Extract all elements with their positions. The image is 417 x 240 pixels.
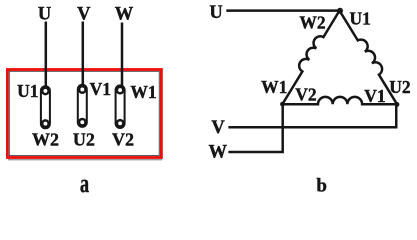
svg-text:W2: W2 xyxy=(299,12,325,32)
svg-text:W1: W1 xyxy=(261,77,287,97)
svg-text:a: a xyxy=(80,169,90,198)
svg-text:W2: W2 xyxy=(32,129,59,149)
svg-text:W1: W1 xyxy=(130,82,156,102)
svg-text:V: V xyxy=(211,118,225,138)
svg-text:U1: U1 xyxy=(17,81,38,101)
svg-text:W: W xyxy=(115,5,134,25)
svg-text:U: U xyxy=(209,3,222,23)
svg-text:U2: U2 xyxy=(389,77,410,97)
svg-text:W: W xyxy=(209,142,228,162)
svg-text:V1: V1 xyxy=(364,86,385,106)
svg-text:V2: V2 xyxy=(112,130,134,150)
svg-text:V2: V2 xyxy=(295,85,316,105)
svg-text:U: U xyxy=(38,4,51,24)
svg-text:V1: V1 xyxy=(90,79,111,99)
svg-text:U1: U1 xyxy=(350,8,371,28)
svg-text:U2: U2 xyxy=(73,129,95,149)
svg-text:b: b xyxy=(316,176,327,197)
svg-text:V: V xyxy=(77,4,91,24)
